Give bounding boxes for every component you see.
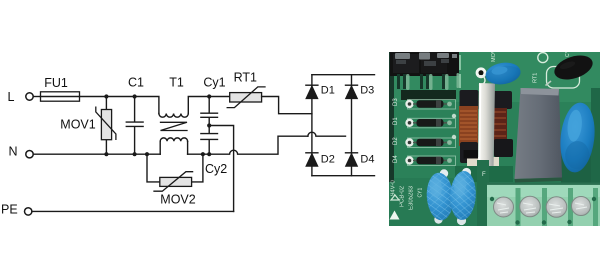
wire PE rail — [32, 210, 234, 212]
diode D2 — [306, 153, 318, 166]
PCB photo: board base — [389, 52, 600, 226]
diode D1 — [306, 85, 318, 98]
PCB choke copper winding left — [459, 106, 478, 146]
wire T1 top-right up and right to RT1 — [188, 97, 229, 114]
fuse FU1 — [41, 92, 80, 101]
varistor MOV2 — [147, 154, 203, 191]
PCB silkscreen circle with hole near choke — [476, 67, 487, 84]
PCB thermistor black disc top-right — [551, 51, 595, 84]
PCB terminal screw 3 — [546, 197, 567, 218]
PCB diode D2 row — [393, 137, 456, 148]
svg-text:D2: D2 — [321, 153, 335, 165]
node MOV2 right junction — [201, 152, 205, 156]
wire RT1 to bridge left branch — [262, 97, 312, 114]
svg-text:RT1: RT1 — [234, 71, 257, 85]
PCB terminal screw 4 — [572, 197, 591, 216]
transformer T1 top winding — [159, 114, 188, 118]
svg-text:C1: C1 — [128, 76, 144, 90]
svg-text:D4: D4 — [360, 153, 374, 165]
node MOV1 bottom junction — [104, 152, 108, 156]
svg-text:PCB-02: PCB-02 — [400, 185, 406, 207]
PCB big blue cap right — [557, 101, 598, 174]
svg-text:Cy1: Cy1 — [203, 76, 225, 90]
svg-text:T1: T1 — [169, 76, 184, 90]
PCB silkscreen dashes right of caps — [459, 55, 461, 88]
PCB choke copper winding right — [493, 108, 507, 141]
wire bridge bottom rail — [312, 175, 375, 177]
svg-text:F: F — [482, 172, 486, 178]
transformer T1 bottom winding — [160, 138, 187, 141]
svg-text:E305283: E305283 — [409, 185, 415, 210]
node C1 top junction — [133, 94, 137, 98]
wire T1 bottom winding legs — [160, 141, 187, 154]
terminal L — [26, 93, 33, 100]
wire bridge right branch — [351, 75, 353, 176]
capacitor C1 — [126, 97, 143, 155]
PCB silver vertical clip — [478, 83, 495, 170]
node Cy1 top junction — [207, 94, 211, 98]
varistor MOV1 — [96, 97, 116, 155]
PCB small dark holes on strip — [490, 197, 596, 225]
PCB black capacitors row top-left — [390, 52, 459, 76]
PCB dark green right of relay — [561, 148, 600, 183]
svg-text:D4: D4 — [393, 155, 399, 163]
wire bridge top rail — [312, 74, 375, 76]
wire fuse to T1 top-left — [80, 97, 159, 114]
transformer T1 core — [161, 122, 188, 130]
PCB dark green shadow under choke — [455, 166, 513, 182]
diode D3 — [346, 85, 358, 98]
PCB silkscreen RT1 footprint — [538, 53, 580, 88]
svg-text:RT1: RT1 — [533, 73, 539, 83]
wire N rail mid with hop over PE riser — [188, 136, 308, 154]
PCB choke bobbin top blocks — [460, 90, 479, 110]
wire L to fuse — [33, 96, 40, 98]
terminal N — [26, 151, 33, 158]
PCB blue oval cap CY2 right — [449, 168, 477, 225]
PCB choke white base plate — [467, 157, 499, 169]
PCB blue oval cap CY1 left — [425, 169, 455, 223]
PCB diode D3 row — [393, 98, 456, 109]
svg-text:PE: PE — [1, 203, 18, 217]
svg-text:94V-0: 94V-0 — [391, 180, 397, 196]
wire N rail left — [33, 153, 160, 155]
PCB choke bobbin bottom blocks — [460, 142, 478, 163]
svg-text:MOV2: MOV2 — [160, 192, 195, 206]
terminal PE — [25, 208, 32, 215]
svg-text:CY1: CY1 — [418, 188, 424, 198]
thermistor RT1 — [227, 87, 265, 108]
PCB black part left of base — [464, 150, 479, 159]
node Cy midpoint junction — [207, 123, 211, 127]
PCB blue disc cap top-middle — [484, 60, 522, 86]
wire bridge left branch — [311, 75, 313, 176]
svg-text:FU1: FU1 — [44, 76, 68, 90]
svg-text:N: N — [9, 145, 18, 159]
node L-fuse-MOV1 junction — [104, 94, 108, 98]
PCB diode D1 row — [393, 117, 456, 128]
wire Cy midpoint to PE riser — [209, 126, 233, 212]
svg-text:D1: D1 — [393, 117, 399, 125]
PCB silkscreen UL triangle mark — [390, 211, 400, 220]
PCB solder pads left of choke — [452, 114, 456, 139]
PCB terminal screw 2 — [520, 196, 541, 217]
PCB gray relay block — [515, 88, 563, 179]
svg-text:Cy2: Cy2 — [205, 162, 227, 176]
PCB terminal strip light band — [487, 183, 600, 227]
node Cy2 bottom junction — [207, 152, 211, 156]
node C1 bottom junction — [133, 152, 137, 156]
capacitor Cy2 — [201, 126, 218, 155]
PCB diode D4 row — [393, 155, 456, 166]
node MOV2 left junction — [145, 152, 149, 156]
PCB dark left edge strip — [389, 52, 394, 182]
svg-text:D2: D2 — [393, 137, 399, 145]
svg-text:MOV1: MOV1 — [60, 117, 95, 131]
svg-text:L: L — [8, 90, 15, 104]
PCB component pins below caps — [397, 74, 445, 89]
diode D4 — [346, 153, 358, 166]
PCB dark band under caps — [401, 90, 456, 100]
wire hop over D1-D2 branch — [308, 132, 346, 136]
svg-text:D1: D1 — [321, 84, 335, 96]
svg-text:D3: D3 — [393, 98, 399, 106]
svg-text:D3: D3 — [360, 84, 374, 96]
capacitor Cy1 — [201, 97, 218, 126]
PCB terminal screw 1 — [494, 197, 514, 217]
